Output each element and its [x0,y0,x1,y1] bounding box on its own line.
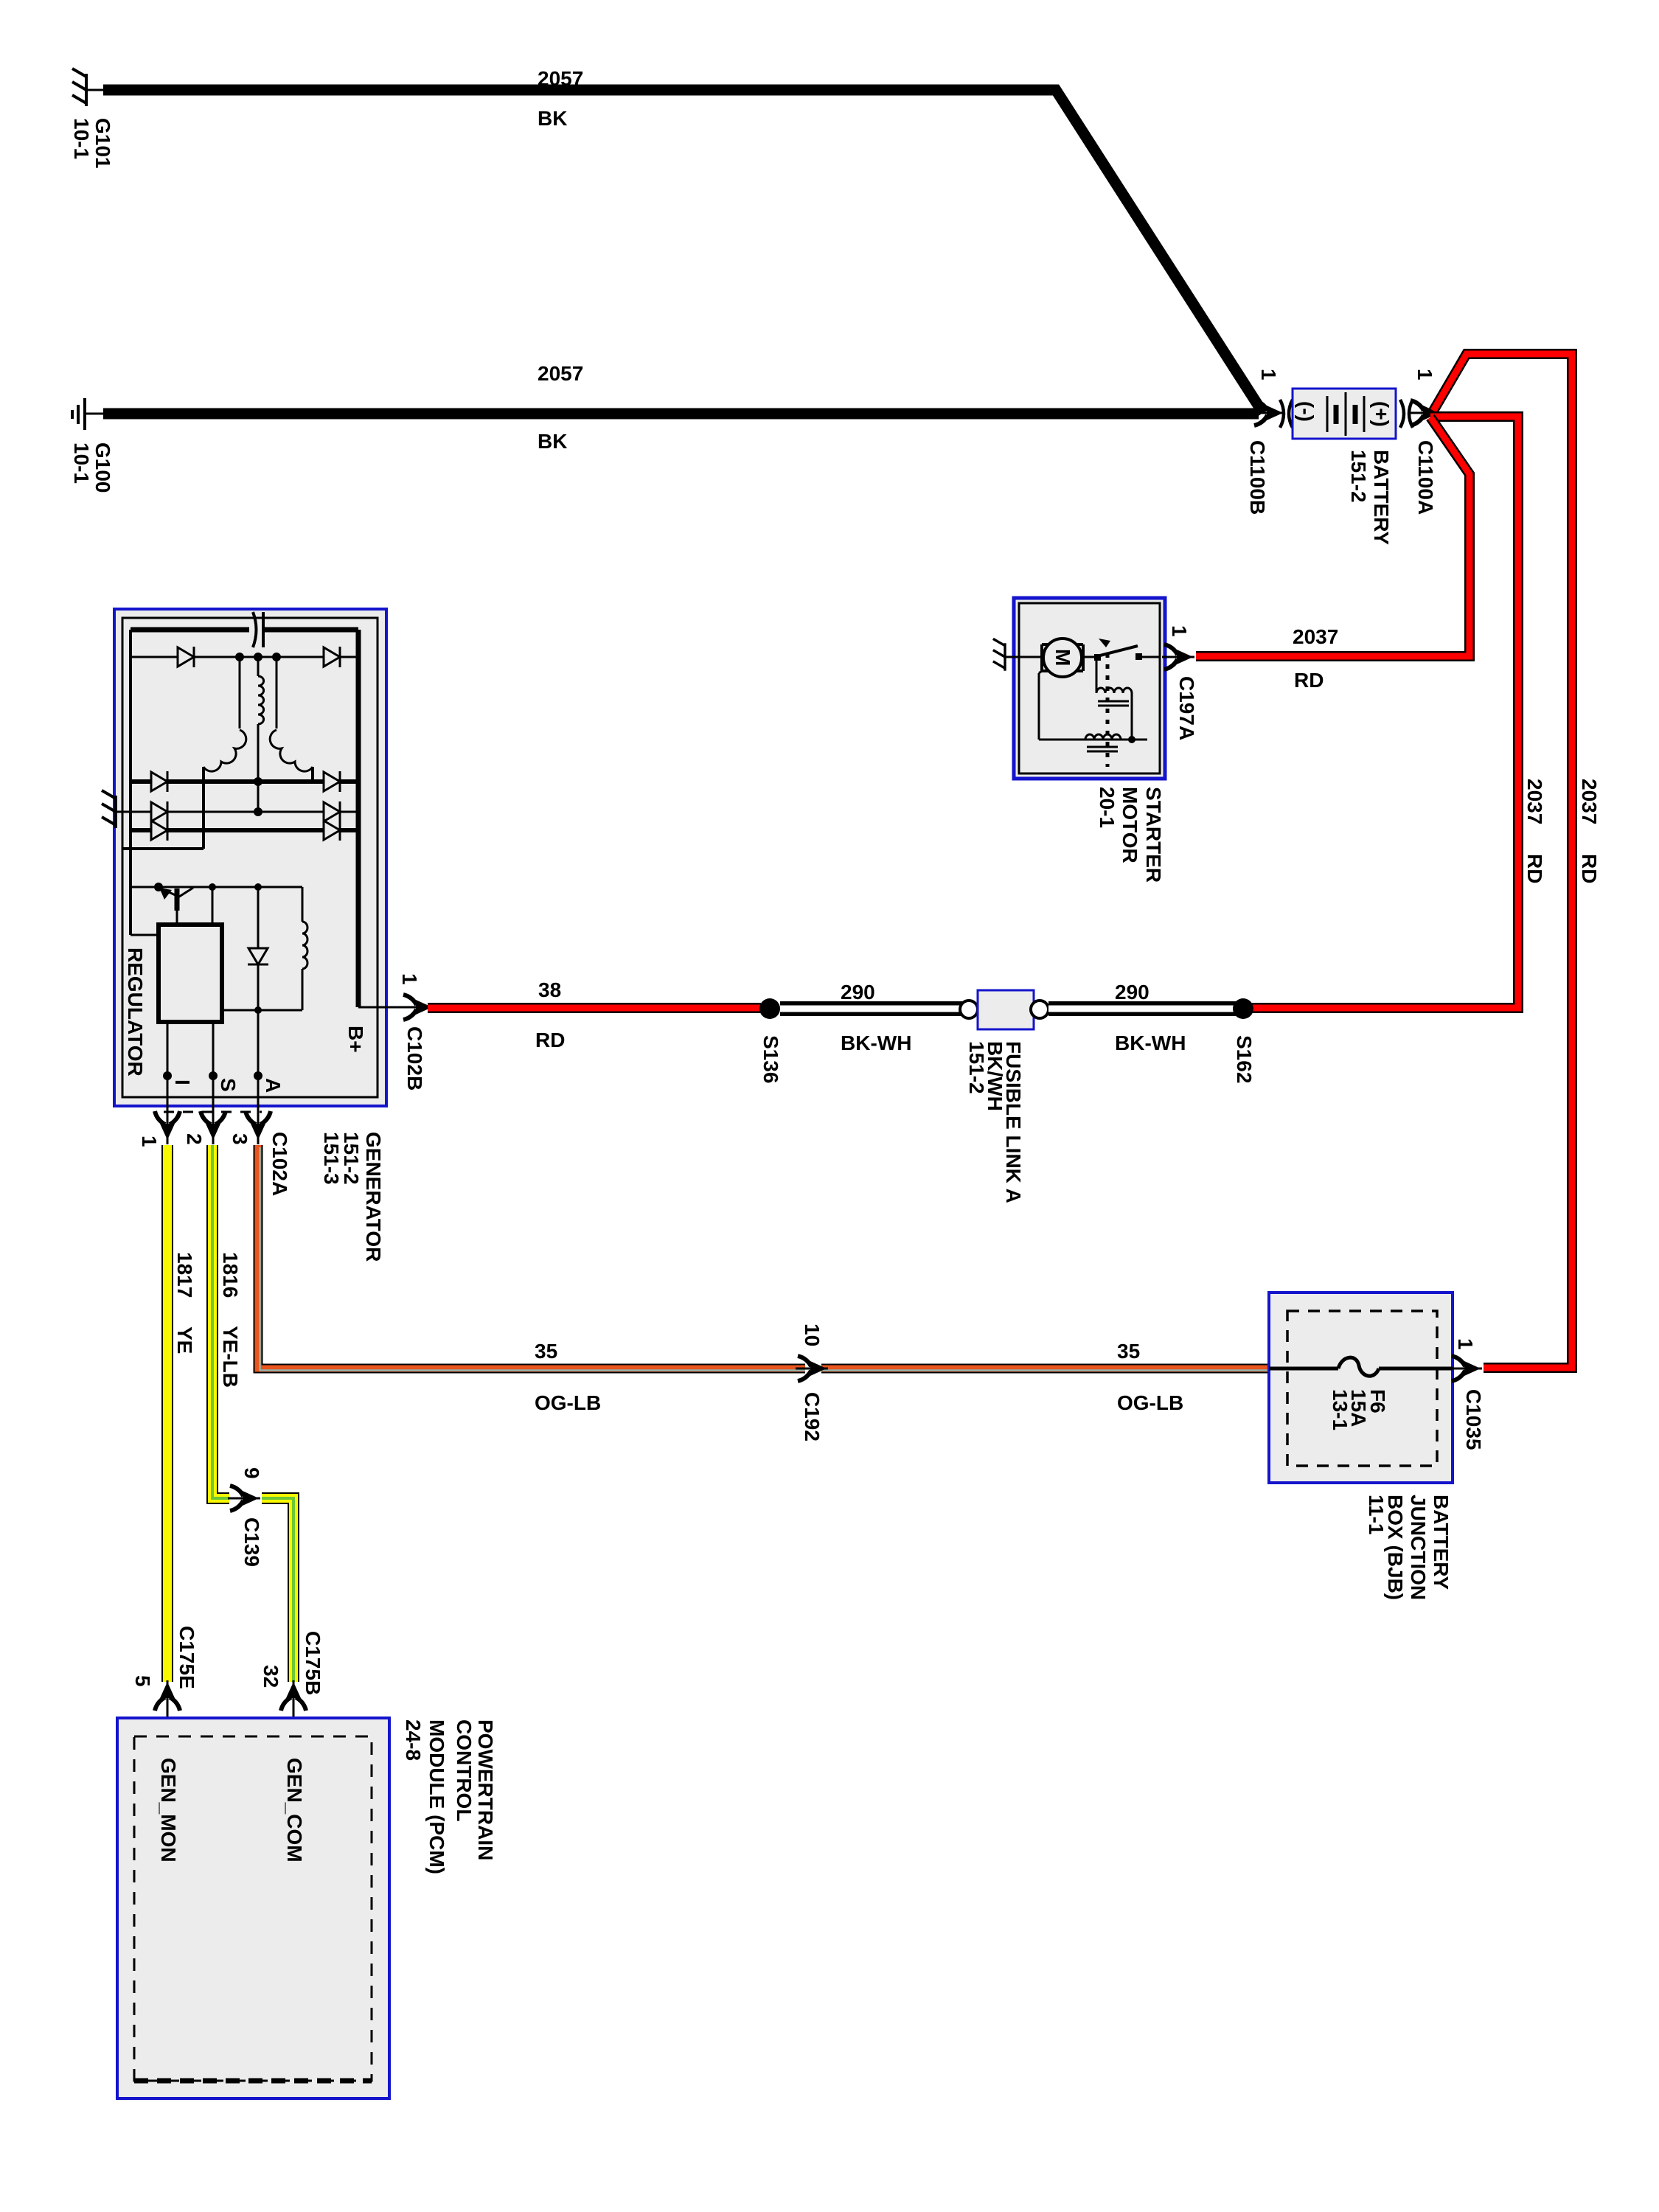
svg-text:G101: G101 [91,118,114,169]
lower solenoid coil [1085,734,1121,740]
switch [1094,654,1101,661]
svg-text:C197A: C197A [1175,676,1198,740]
svg-text:2037: 2037 [1293,625,1338,648]
label POWERTRAIN CONTROL MODULE (PCM) 24-8 [402,1719,497,1874]
junction dots row1 [235,653,244,661]
svg-text:C1100A: C1100A [1414,440,1437,515]
svg-text:35: 35 [1117,1340,1140,1363]
winding return wire [122,847,204,850]
svg-text:RD: RD [535,1029,565,1051]
transistor Q1 [175,888,180,911]
svg-text:YE: YE [173,1326,196,1354]
svg-text:1: 1 [1168,625,1191,637]
svg-text:A: A [262,1078,285,1093]
svg-text:S136: S136 [759,1035,782,1083]
svg-text:BATTERY: BATTERY [1430,1495,1453,1590]
svg-text:REGULATOR: REGULATOR [124,947,147,1077]
svg-text:POWERTRAIN: POWERTRAIN [474,1719,497,1860]
wire 290 BK-WH left [780,1001,967,1016]
stator winding leads [239,657,241,728]
svg-text:STARTER: STARTER [1142,787,1165,883]
svg-text:GEN_COM: GEN_COM [283,1758,306,1863]
svg-text:B+: B+ [344,1026,367,1053]
svg-text:RD: RD [1578,854,1601,883]
svg-text:3: 3 [229,1133,251,1145]
svg-text:1: 1 [398,973,421,985]
wire 290 BK-WH right [1048,1001,1237,1016]
stator coil center [258,676,264,724]
label 2057 BK wire2 [538,362,583,453]
splice S162 [1233,998,1253,1019]
connector C192 pin 10 arrow [796,1324,828,1441]
label 2057 BK wire1 [538,67,583,130]
wire 2057 BK (G100 to battery) [103,408,1259,420]
svg-text:BK: BK [538,107,567,130]
diode D2 [151,771,340,792]
wire 2057 BK (G101 to battery, with diagonal) [103,90,1263,413]
wire 1817 YE (pin 1 to C175E) [161,1145,173,1682]
fuse F6 15A 13-1 [1269,1357,1453,1430]
stator coil right [270,730,313,771]
svg-text:32: 32 [260,1665,282,1688]
label G101 10-1 [70,118,114,169]
connector C1100B pin 1 arrow [1246,369,1293,515]
svg-text:JUNCTION: JUNCTION [1407,1495,1430,1600]
svg-text:1: 1 [1454,1338,1477,1350]
battery junction box BATTERY JUNCTION BOX (BJB) 11-1 [1269,1293,1453,1483]
svg-text:M: M [1051,649,1074,666]
svg-text:35: 35 [535,1340,557,1363]
upper solenoid coil [1096,660,1098,692]
starter motor box STARTER MOTOR 20-1 [1014,598,1165,779]
svg-text:S162: S162 [1233,1035,1256,1083]
ground G100 [72,398,105,430]
connector C197A pin 1 arrow [1162,625,1198,740]
svg-text:BATTERY: BATTERY [1370,450,1393,545]
svg-text:C139: C139 [240,1517,263,1567]
svg-text:10-1: 10-1 [70,442,93,484]
motor M circle with brackets [1040,644,1043,671]
svg-text:C1100B: C1100B [1246,440,1269,515]
svg-text:2037: 2037 [1578,779,1601,824]
svg-text:BK-WH: BK-WH [1115,1032,1186,1054]
left feed to regulator [131,934,159,936]
svg-text:C192: C192 [801,1392,824,1441]
wire diode row 4 [131,828,358,832]
svg-text:9: 9 [240,1467,263,1479]
svg-text:151-2: 151-2 [1347,450,1370,503]
stator coil left [204,730,246,771]
connector C175E pin 5 arrow [131,1626,198,1737]
connector C139 pin 9 arrow [228,1467,263,1567]
svg-text:GENERATOR: GENERATOR [362,1132,385,1262]
svg-text:C102B: C102B [403,1026,426,1091]
label BATTERY JUNCTION BOX (BJB) 11-1 [1365,1495,1453,1600]
diode field [257,887,260,1010]
wire top bus [131,627,249,633]
svg-text:RD: RD [1294,669,1324,692]
svg-text:2: 2 [183,1133,206,1145]
svg-text:(-): (-) [1295,401,1318,422]
connector C102B pin 1 arrow [398,973,434,1091]
label STARTER MOTOR 20-1 [1096,787,1165,883]
svg-text:1816: 1816 [219,1252,242,1298]
svg-text:10: 10 [801,1324,824,1346]
svg-text:13-1: 13-1 [1329,1389,1352,1430]
wire 2037 RD battery to S162 (middle) [1246,417,1518,1008]
wire 2037 RD battery to BJB (outer) [1433,354,1572,1368]
svg-text:C1035: C1035 [1462,1389,1485,1450]
wire 2037 RD battery to starter (inner) [1196,417,1470,656]
regulator rail [131,886,302,888]
svg-text:2057: 2057 [538,67,583,90]
generator box GENERATOR 151-2 151-3 [114,609,386,1106]
svg-text:C175B: C175B [302,1631,324,1695]
svg-text:24-8: 24-8 [402,1719,425,1761]
label 290 BK-WH right [1115,981,1186,1054]
svg-text:RD: RD [1523,854,1546,883]
svg-text:CONTROL: CONTROL [453,1719,476,1821]
svg-text:1: 1 [1413,369,1436,380]
connector C1035 pin 1 arrow [1450,1338,1485,1450]
generator internals [102,612,410,1121]
wire YE-LB C139 to C175B [262,1498,293,1682]
svg-text:YE-LB: YE-LB [219,1326,242,1388]
svg-text:20-1: 20-1 [1096,787,1119,828]
B+ exit [358,1006,410,1009]
label G100 10-1 [70,442,114,493]
svg-text:10-1: 10-1 [70,118,93,159]
label 1816 YE-LB [219,1252,242,1388]
ground (generator) [102,790,116,828]
svg-text:OG-LB: OG-LB [535,1391,601,1414]
dashed linkage [1106,653,1110,767]
svg-text:11-1: 11-1 [1365,1495,1388,1535]
wire RD BJB to vertical (stub) [1453,1368,1482,1370]
wire 35 OG-LB (pin 3 to BJB) [258,1145,1269,1371]
svg-text:C175E: C175E [175,1626,198,1689]
svg-text:MODULE (PCM): MODULE (PCM) [425,1719,448,1874]
svg-text:151-2: 151-2 [965,1041,988,1094]
regulator box [159,925,222,1022]
svg-text:151-3: 151-3 [320,1132,343,1185]
svg-text:GEN_MON: GEN_MON [157,1758,180,1863]
diode D3 [151,801,340,822]
connector C1100A pin 1 arrow [1400,369,1441,515]
wire left bus [129,630,132,935]
label 35 OG-LB left [535,1340,601,1414]
label 38 RD [535,978,565,1051]
svg-text:290: 290 [841,981,875,1004]
svg-text:MOTOR: MOTOR [1119,787,1141,863]
connector C175B pin 32 arrow [260,1631,324,1737]
wire 38 RD generator B+ to S136 [428,1003,761,1013]
label 1817 YE [173,1252,196,1354]
svg-text:(+): (+) [1370,401,1393,427]
svg-text:S: S [217,1078,240,1092]
svg-text:2057: 2057 [538,362,583,385]
wire 1816 YE-LB (pin 2 to C139) [212,1145,229,1498]
label 290 BK-WH left [841,981,911,1054]
svg-text:BK: BK [538,430,567,453]
svg-text:1: 1 [1257,369,1280,380]
svg-text:1: 1 [138,1135,161,1147]
pins I S A [167,1022,169,1121]
diode D1 [178,647,340,667]
label 2037 RD (starter wire) [1293,625,1338,692]
ground (starter) [993,639,1005,670]
powertrain control module PCM box [117,1718,389,2098]
svg-text:G100: G100 [91,442,114,493]
bottom wire [1038,673,1040,740]
pins 1 2 3 and connector C102A [138,1101,291,1196]
label 2037 RD (vertical wire to S162) [1523,779,1546,883]
fusible link FUSIBLE LINK A BK/WH 151-2 [960,990,1048,1203]
label 35 OG-LB right [1117,1340,1183,1414]
wire diode row 1 [131,656,358,658]
label GENERATOR 151-2 151-3 [320,1132,385,1262]
ground G101 [72,69,105,106]
svg-text:38: 38 [538,978,561,1001]
battery BATTERY 151-2 [1293,389,1396,545]
svg-text:BK-WH: BK-WH [841,1032,911,1054]
svg-text:C102A: C102A [268,1132,291,1196]
wire diode row 2 [131,779,358,784]
wire diode row 3 [116,811,358,813]
svg-text:1817: 1817 [173,1252,196,1298]
label 2037 RD (vertical wire to BJB) [1578,779,1601,883]
svg-text:290: 290 [1115,981,1150,1004]
inductor field coil [302,887,304,922]
svg-text:I: I [171,1079,194,1085]
break symbol [253,612,257,647]
svg-text:5: 5 [131,1675,154,1687]
starter internals [1004,639,1160,767]
svg-text:OG-LB: OG-LB [1117,1391,1183,1414]
wire B+ bus [356,630,361,1007]
diode D4 [151,820,340,841]
svg-text:2037: 2037 [1523,779,1546,824]
splice S136 [759,998,780,1019]
